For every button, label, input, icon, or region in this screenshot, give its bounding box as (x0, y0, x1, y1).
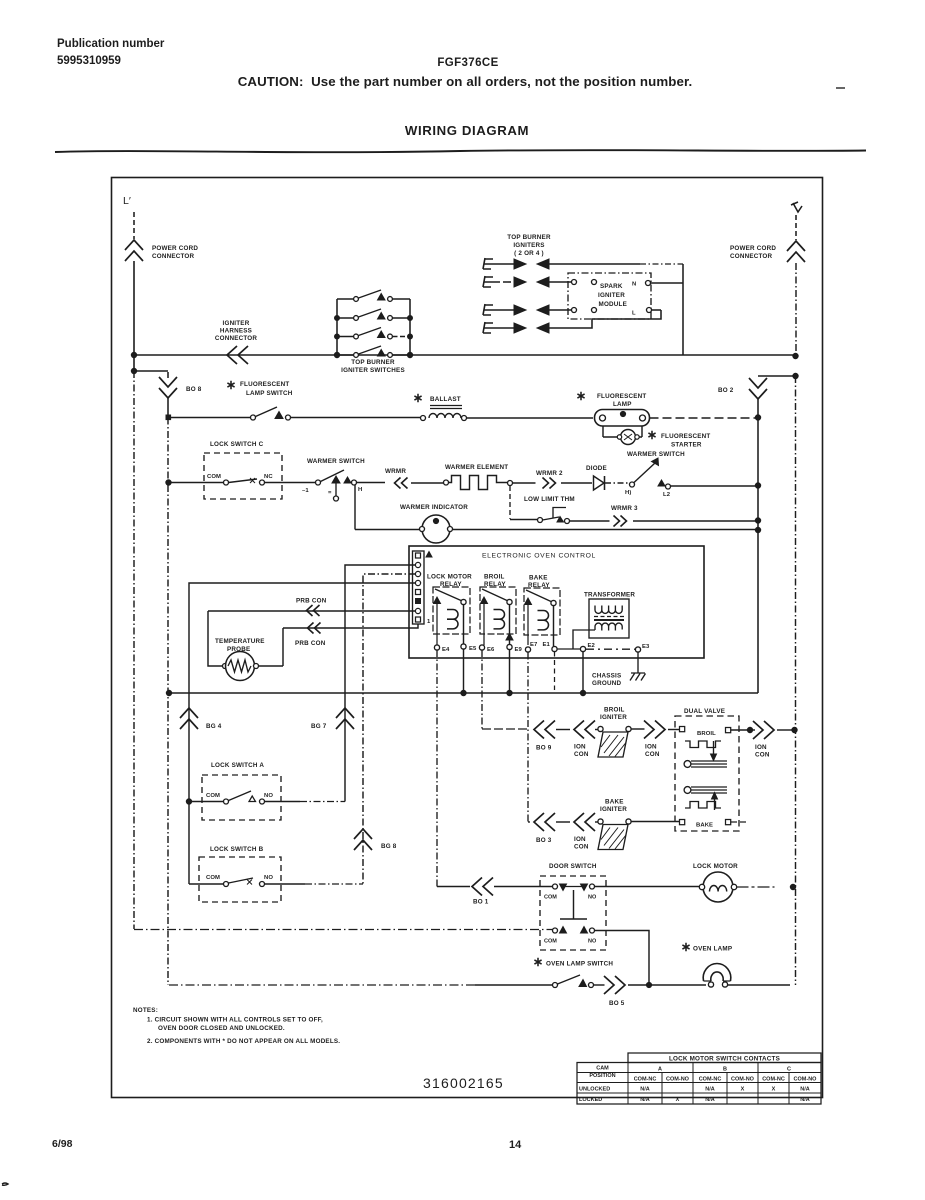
separator rule (55, 150, 866, 152)
svg-text:OVEN DOOR CLOSED AND UNLOCKED.: OVEN DOOR CLOSED AND UNLOCKED. (158, 1025, 285, 1032)
relay BAKE RELAY (524, 575, 560, 647)
connector ION CON chevron (broil right) (644, 721, 679, 759)
svg-text:316002165: 316002165 (423, 1075, 504, 1091)
svg-text:BO 2: BO 2 (718, 387, 734, 394)
svg-text:TOP BURNER: TOP BURNER (507, 234, 551, 241)
svg-text:TRANSFORMER: TRANSFORMER (584, 592, 635, 599)
wire L terminal hook (652, 309, 662, 311)
svg-text:COM: COM (544, 939, 557, 945)
warmer element (444, 464, 513, 490)
svg-text:NO: NO (264, 875, 273, 881)
svg-text:BG 4: BG 4 (206, 723, 222, 730)
connector ION CON chevron (far right) (752, 721, 793, 759)
svg-text:L′: L′ (123, 195, 131, 207)
svg-text:1: 1 (427, 619, 431, 625)
terminal E4 (434, 645, 450, 653)
svg-text:N: N (632, 282, 636, 288)
svg-text:ION: ION (574, 744, 586, 751)
svg-text:IGNITER: IGNITER (598, 292, 625, 299)
terminal E5 (461, 644, 477, 652)
svg-text:=: = (328, 490, 332, 496)
svg-text:COM: COM (206, 793, 220, 799)
svg-text:IGNITER SWITCHES: IGNITER SWITCHES (341, 367, 405, 374)
node junction lamp line / right rail (755, 415, 760, 420)
svg-text:BG 7: BG 7 (311, 723, 327, 730)
label top burner igniters (507, 234, 551, 257)
svg-text:L2: L2 (663, 492, 671, 498)
document header text (57, 38, 692, 138)
wire lock motor to N rail (737, 886, 775, 888)
node junction E5 bus (461, 690, 466, 695)
svg-text:DIODE: DIODE (586, 465, 607, 472)
svg-text:BO 8: BO 8 (186, 386, 202, 393)
svg-text:E4: E4 (442, 647, 450, 653)
node junction lock switch C feed (166, 480, 171, 485)
igniter row 1 (483, 258, 683, 269)
svg-text:A: A (658, 1067, 662, 1073)
label top burner igniter switches (341, 359, 405, 374)
power cord connector (right) (730, 215, 805, 262)
svg-text:X: X (741, 1087, 745, 1093)
svg-text:BAKE: BAKE (529, 575, 548, 582)
svg-text:FGF376CE: FGF376CE (437, 57, 498, 69)
svg-text:LOCK MOTOR: LOCK MOTOR (427, 574, 472, 581)
switch fluorescent lamp switch (166, 381, 421, 420)
svg-text:BROIL: BROIL (484, 574, 505, 581)
svg-text:MODULE: MODULE (599, 301, 628, 308)
switch igniter sw row4 (337, 346, 410, 357)
node junction E9 bus (507, 690, 512, 695)
svg-text:IGNITER: IGNITER (223, 320, 250, 327)
wire E1 dashed drop to bus (554, 652, 556, 691)
svg-text:LOCK SWITCH C: LOCK SWITCH C (210, 441, 264, 448)
stray mark bottom left (2, 1183, 8, 1185)
svg-text:COM-NO: COM-NO (666, 1077, 690, 1083)
svg-text:E3: E3 (642, 644, 650, 650)
wire bus y=693 (169, 692, 758, 694)
svg-text:WRMR: WRMR (385, 468, 406, 475)
wire left rail x=168 (dash-dot, lamp line down to oven lamp line) (167, 418, 169, 986)
svg-text:OVEN LAMP SWITCH: OVEN LAMP SWITCH (546, 961, 613, 968)
connector WRMR (chevron) (385, 468, 444, 489)
power cord connector (left) (125, 212, 198, 261)
svg-text:ION: ION (645, 744, 657, 751)
svg-text:WRMR 3: WRMR 3 (611, 505, 638, 512)
switch WARMER SWITCH (left) (302, 458, 385, 501)
wire E2 to E3 dashed (586, 648, 636, 650)
terminal E3 (635, 644, 650, 652)
switch top burner igniter switches block (334, 299, 412, 358)
svg-text:5995310959: 5995310959 (57, 55, 121, 67)
wire line2 right stub (758, 375, 796, 377)
svg-text:LAMP SWITCH: LAMP SWITCH (246, 390, 293, 397)
node junction diode line / right rail (755, 483, 760, 488)
svg-text:POSITION: POSITION (589, 1073, 615, 1079)
terminal E9 (507, 644, 523, 653)
wire broil valve to BO (right) (731, 729, 748, 731)
wire BO8 to lamp line (167, 398, 169, 417)
connector BO 5 chevron (604, 976, 646, 1007)
chassis ground (592, 652, 646, 687)
svg-text:IGNITER: IGNITER (600, 714, 627, 721)
wire lamp to BO2 drop (dashed) (650, 417, 759, 419)
wire line2 left stub (134, 371, 168, 378)
switch WARMER SWITCH (right) (625, 451, 758, 498)
node junction lock motor/N rail (790, 884, 795, 889)
node junction E2 bus (580, 690, 585, 695)
op-amp n/a : electronic oven control box (409, 546, 704, 658)
svg-text:C: C (787, 1067, 791, 1073)
wire line1 (L1 bus) (133, 354, 795, 356)
wire L1 dash-dot vertical down to door switch feed (133, 371, 135, 929)
switch igniter sw row1 (337, 290, 410, 301)
svg-text:ION: ION (755, 744, 767, 751)
stray mark top right (836, 87, 845, 89)
svg-text:E2: E2 (588, 643, 596, 649)
svg-text:COM-NC: COM-NC (634, 1077, 657, 1083)
svg-text:X: X (676, 1097, 680, 1103)
svg-text:BALLAST: BALLAST (430, 396, 461, 403)
connector WRMR 3 (chevron) (611, 505, 758, 527)
svg-text:( 2 OR 4 ): ( 2 OR 4 ) (514, 250, 544, 257)
svg-text:WRMR 2: WRMR 2 (536, 470, 563, 477)
node N mark (top right) (791, 202, 802, 212)
wire right rail x=758 (757, 418, 759, 694)
svg-text:CAUTION: Use the part number: CAUTION: Use the part number on all orde… (238, 74, 693, 89)
wire EOC pin8 probe lower (PRB CON) (283, 623, 418, 648)
svg-text:N/A: N/A (800, 1087, 810, 1093)
svg-text:E9: E9 (515, 647, 523, 653)
node junction oven lamp line (646, 982, 651, 987)
svg-text:FLUORESCENT: FLUORESCENT (597, 393, 646, 400)
switch igniter sw row3 (337, 328, 410, 339)
svg-text:BAKE: BAKE (696, 823, 713, 829)
svg-text:BO 1: BO 1 (473, 899, 489, 906)
svg-text:ION: ION (574, 836, 586, 843)
svg-text:6/98: 6/98 (52, 1138, 73, 1150)
svg-text:LOCK SWITCH B: LOCK SWITCH B (210, 846, 264, 853)
svg-text:N/A: N/A (800, 1097, 810, 1103)
wire E5 to bus (463, 649, 465, 693)
wire lower door row to L1 rail (134, 929, 553, 931)
svg-text:LOCK SWITCH A: LOCK SWITCH A (211, 762, 264, 769)
valve DUAL VALVE (675, 708, 739, 831)
svg-text:DOOR SWITCH: DOOR SWITCH (549, 863, 597, 870)
svg-text:N/A: N/A (705, 1087, 715, 1093)
svg-text:2. COMPONENTS WITH * DO NOT AP: 2. COMPONENTS WITH * DO NOT APPEAR ON AL… (147, 1038, 340, 1045)
wire bake valve right stub (731, 821, 747, 823)
svg-text:L: L (632, 311, 636, 317)
wire N rail dash-dot down right side (795, 376, 797, 985)
switch LOCK SWITCH C (169, 441, 316, 499)
diagram outer border (112, 178, 823, 1098)
wire N vertical dash-dot (795, 263, 797, 356)
svg-text:NOTES:: NOTES: (133, 1007, 158, 1014)
connector BO 8 (down chevron) (159, 377, 202, 398)
spark igniter module U1 (568, 273, 652, 319)
svg-text:CON: CON (755, 752, 770, 759)
svg-text:GROUND: GROUND (592, 680, 621, 687)
svg-text:CONNECTOR: CONNECTOR (730, 253, 773, 260)
svg-text:CON: CON (574, 844, 589, 851)
node junction N/line2 (793, 373, 798, 378)
connector BO 9 chevron (534, 721, 570, 752)
igniter harness connector (215, 320, 258, 364)
connector ION CON chevron (bake left) (574, 813, 598, 851)
svg-text:PRB CON: PRB CON (296, 598, 327, 605)
svg-text:BROIL: BROIL (604, 707, 625, 714)
switch DOOR SWITCH (540, 863, 606, 950)
svg-text:BG 8: BG 8 (381, 843, 397, 850)
connector WRMR 2 (chevron) (513, 470, 593, 489)
node junction indicator line / right rail (755, 527, 760, 532)
switch igniter sw row2 (337, 309, 410, 320)
svg-text:N/A: N/A (640, 1087, 650, 1093)
igniter row 4 (483, 310, 661, 333)
table lock motor switch contacts (577, 1053, 821, 1104)
svg-text:BO 5: BO 5 (609, 1000, 625, 1007)
node junction bus left end (166, 690, 171, 695)
svg-text:COM: COM (544, 895, 557, 901)
wire lower door NO drop to oven lamp line (595, 931, 650, 986)
igniter BAKE IGNITER line (528, 653, 530, 823)
svg-text:PRB CON: PRB CON (295, 640, 326, 647)
svg-text:B: B (723, 1067, 727, 1073)
igniter BROIL IGNITER line (482, 650, 530, 729)
fluorescent lamp (577, 392, 649, 426)
svg-text:H: H (358, 487, 362, 493)
svg-text:SPARK: SPARK (600, 283, 623, 290)
svg-text:CONNECTOR: CONNECTOR (152, 253, 195, 260)
wire oven lamp line left (169, 984, 475, 986)
svg-text:WIRING DIAGRAM: WIRING DIAGRAM (405, 123, 529, 138)
svg-text:ELECTRONIC OVEN CONTROL: ELECTRONIC OVEN CONTROL (482, 553, 596, 560)
wire BO2 to lamp line (757, 399, 759, 418)
switch LOCK SWITCH B (189, 846, 363, 902)
svg-text:LOCKED: LOCKED (579, 1097, 602, 1103)
svg-text:POWER CORD: POWER CORD (152, 245, 198, 252)
svg-text:Publication number: Publication number (57, 38, 165, 50)
svg-text:NO: NO (588, 895, 597, 901)
svg-text:TOP BURNER: TOP BURNER (351, 359, 395, 366)
svg-text:UNLOCKED: UNLOCKED (579, 1087, 610, 1093)
igniter row 2 (483, 276, 597, 287)
svg-text:WARMER SWITCH: WARMER SWITCH (627, 451, 685, 458)
svg-text:LOCK MOTOR SWITCH CONTACTS: LOCK MOTOR SWITCH CONTACTS (669, 1056, 780, 1063)
svg-text:TEMPERATURE: TEMPERATURE (215, 638, 265, 645)
motor LOCK MOTOR (693, 863, 738, 902)
ballast (414, 394, 593, 421)
wire E2 drop to bus (582, 652, 584, 694)
relay BROIL RELAY (480, 574, 516, 646)
svg-text:E1: E1 (543, 642, 551, 648)
node junction L1/line1 (131, 352, 136, 357)
switch OVEN LAMP SWITCH (534, 958, 613, 988)
wire E4 to door switch line (dash-dot) (436, 650, 438, 887)
igniter BAKE IGNITER (598, 799, 679, 850)
svg-text:–1: –1 (302, 488, 309, 494)
wire EOC pin2 to lock switch A (via BG 7) (345, 565, 416, 802)
node junction L1/line2 (131, 368, 136, 373)
connector BG 4 chevron (180, 708, 222, 730)
svg-text:CON: CON (645, 751, 660, 758)
relay LOCK MOTOR RELAY (427, 574, 472, 646)
node junction lock switch A COM (186, 799, 191, 804)
svg-text:POWER CORD: POWER CORD (730, 245, 776, 252)
svg-text:BO 3: BO 3 (536, 837, 552, 844)
wire L1 vertical (133, 261, 135, 371)
svg-text:DUAL VALVE: DUAL VALVE (684, 708, 725, 715)
terminal E2 (580, 643, 595, 652)
svg-text:IGNITER: IGNITER (600, 806, 627, 813)
svg-text:NO: NO (588, 939, 597, 945)
svg-text:1. CIRCUIT SHOWN WITH ALL CONT: 1. CIRCUIT SHOWN WITH ALL CONTROLS SET T… (147, 1017, 323, 1024)
notes text (133, 1007, 340, 1045)
svg-text:IGNITERS: IGNITERS (513, 242, 544, 249)
diode (586, 465, 629, 490)
svg-text:E6: E6 (487, 647, 495, 653)
thermostat LOW LIMIT THM (510, 486, 610, 524)
node junction THM line / right rail (755, 518, 760, 523)
wire E9 to bus (509, 650, 511, 694)
svg-text:CON: CON (574, 751, 589, 758)
wire N terminal to line1 (651, 264, 684, 355)
terminal E6 (479, 645, 495, 653)
svg-text:WARMER ELEMENT: WARMER ELEMENT (445, 464, 508, 471)
svg-text:BAKE: BAKE (605, 799, 624, 806)
svg-text:NO: NO (264, 793, 273, 799)
wire to oven lamp (651, 984, 706, 986)
switch LOCK SWITCH A (189, 762, 345, 820)
svg-text:HARNESS: HARNESS (220, 328, 252, 335)
fluorescent starter (603, 426, 710, 449)
wire EOC pin4 to lock switches COM (via BG 4) (189, 583, 416, 884)
node junction broil/N rail (792, 727, 797, 732)
wire E1 to E2 (557, 648, 581, 650)
svg-text:COM-NC: COM-NC (762, 1077, 785, 1083)
node junction N/line1 (793, 353, 798, 358)
svg-text:CONNECTOR: CONNECTOR (215, 335, 258, 342)
connector BG 7 chevron (311, 708, 354, 730)
svg-text:CHASSIS: CHASSIS (592, 673, 621, 680)
wire EOC pin7 probe upper (PRB CON) (208, 598, 416, 617)
terminal E1 (543, 642, 558, 652)
connector BO 2 (down chevron) (718, 378, 767, 399)
terminal E7 (525, 642, 538, 652)
node junction broil right (747, 727, 752, 732)
connector BO 3 chevron (534, 813, 570, 844)
svg-text:COM: COM (207, 474, 221, 480)
lamp OVEN LAMP (682, 943, 790, 987)
svg-text:OVEN LAMP: OVEN LAMP (693, 946, 732, 953)
connector BO 1 chevron (472, 878, 552, 906)
svg-text:H): H) (625, 490, 631, 496)
svg-text:LAMP: LAMP (613, 401, 632, 408)
connector ION CON chevron (broil left) (574, 721, 598, 759)
svg-text:WARMER SWITCH: WARMER SWITCH (307, 458, 365, 465)
svg-text:BO 9: BO 9 (536, 745, 552, 752)
svg-text:COM-NO: COM-NO (731, 1077, 755, 1083)
indicator WARMER INDICATOR (355, 485, 758, 543)
svg-text:COM-NO: COM-NO (794, 1077, 818, 1083)
svg-text:STARTER: STARTER (671, 442, 702, 449)
svg-text:FLUORESCENT: FLUORESCENT (661, 433, 710, 440)
svg-text:CAM: CAM (596, 1066, 609, 1072)
svg-text:N/A: N/A (705, 1097, 715, 1103)
svg-text:FLUORESCENT: FLUORESCENT (240, 381, 289, 388)
svg-text:COM-NC: COM-NC (699, 1077, 722, 1083)
transformer T1 (573, 592, 635, 650)
wire upper door NO to lock motor (595, 886, 701, 888)
svg-text:COM: COM (206, 875, 220, 881)
svg-text:E5: E5 (469, 646, 477, 652)
connector BG 8 chevron (354, 829, 397, 850)
svg-text:LOCK MOTOR: LOCK MOTOR (693, 863, 738, 870)
resistor temperature probe (208, 611, 283, 681)
svg-text:BROIL: BROIL (697, 731, 716, 737)
svg-text:E7: E7 (530, 642, 538, 648)
igniter row 3 (483, 304, 597, 315)
wire EOC pin3 to lock switch B (via BG 8, dash-dot) (363, 574, 416, 884)
svg-text:LOW LIMIT THM: LOW LIMIT THM (524, 496, 575, 503)
svg-text:14: 14 (509, 1139, 522, 1151)
connector EOC pin strip (413, 551, 433, 625)
svg-text:N/A: N/A (640, 1097, 650, 1103)
igniter BROIL IGNITER (598, 707, 645, 758)
svg-text:X: X (772, 1087, 776, 1093)
svg-text:WARMER INDICATOR: WARMER INDICATOR (400, 504, 468, 511)
wire door switch feed (437, 886, 470, 888)
svg-text:NC: NC (264, 474, 273, 480)
